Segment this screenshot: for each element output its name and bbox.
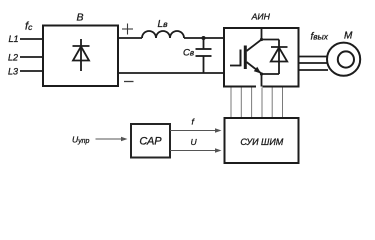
plus sign — [122, 24, 133, 35]
wire: motor phase 1 — [299, 56, 329, 58]
node dot bottom — [260, 72, 263, 75]
motor M outer circle — [327, 43, 360, 76]
wire: DC top rail — [118, 37, 142, 39]
wire: top rail after inductor — [184, 37, 224, 39]
svg-text:САР: САР — [139, 136, 162, 148]
control lines AIN to SUI — [231, 88, 283, 119]
minus sign — [124, 81, 134, 83]
wire: motor phase 2 — [299, 62, 328, 64]
svg-text:В: В — [76, 12, 83, 24]
inductor Lv — [142, 31, 184, 38]
capacitor Cv — [196, 38, 212, 73]
arrow U SAR to SUI — [170, 148, 222, 153]
svg-text:Cв: Cв — [183, 48, 194, 59]
wire L1 — [20, 38, 44, 40]
arrow Uupr to SAR — [96, 137, 128, 142]
node dot top — [260, 38, 263, 41]
wire: motor phase 3 — [299, 69, 329, 71]
junction node — [202, 36, 206, 40]
IGBT transistor — [230, 28, 262, 87]
svg-text:АИН: АИН — [251, 11, 271, 21]
inverter box AIN — [224, 28, 299, 87]
svg-text:U: U — [191, 137, 198, 147]
svg-text:fвых: fвых — [311, 32, 329, 43]
svg-text:Lв: Lв — [158, 19, 169, 30]
arrow f SAR to SUI — [170, 128, 222, 133]
rectifier box B — [43, 26, 118, 87]
svg-text:L1: L1 — [9, 34, 19, 44]
svg-text:L2: L2 — [8, 53, 18, 63]
svg-text:L3: L3 — [8, 67, 18, 77]
svg-text:М: М — [344, 31, 353, 42]
rectifier diode symbol — [73, 39, 90, 71]
wire L2 — [20, 56, 44, 58]
motor M inner circle — [338, 51, 354, 67]
freewheeling diode — [262, 40, 288, 75]
wire: DC bottom rail — [118, 72, 224, 74]
svg-text:СУИ ШИМ: СУИ ШИМ — [240, 137, 283, 147]
PWM control box SUI ShIM — [225, 118, 299, 163]
regulator box SAR — [131, 124, 170, 158]
svg-text:fc: fc — [25, 21, 33, 33]
wire L3 — [20, 70, 44, 72]
